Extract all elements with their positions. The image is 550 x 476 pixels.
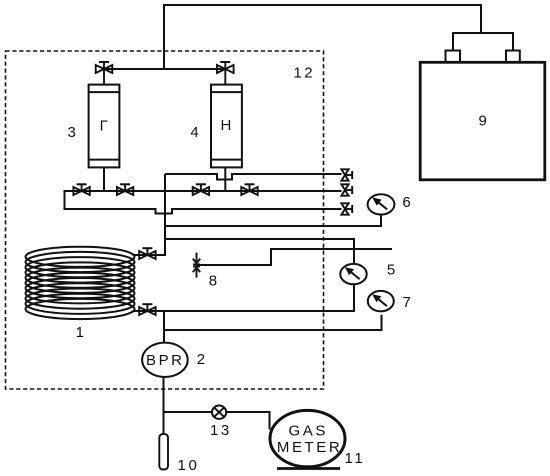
svg-text:6: 6: [402, 194, 410, 211]
wire stem cylinder 4: [224, 167, 226, 191]
svg-text:1: 1: [76, 324, 84, 341]
svg-text:13: 13: [210, 422, 232, 439]
wire to gauge 5 top: [165, 239, 354, 264]
wire battery bus: [453, 33, 513, 50]
dashed enclosure 12: [6, 51, 324, 389]
valve 13: [212, 406, 226, 419]
wire bypass top with jog: [165, 174, 342, 180]
needle valve 8: [193, 253, 200, 278]
wire BPR down: [163, 377, 165, 434]
valve stack B: [341, 184, 352, 195]
gauge 7: [368, 291, 394, 311]
wire from valve 8: [197, 249, 393, 265]
svg-text:4: 4: [190, 124, 198, 141]
valve V8 manifold: [241, 184, 257, 195]
wire manifold with left elbow and jog: [65, 191, 342, 214]
svg-text:8: 8: [209, 272, 217, 289]
terminal right: [506, 51, 520, 63]
wire gauge 5 bottom to coil line: [133, 285, 354, 312]
svg-text:H: H: [220, 117, 231, 134]
svg-text:5: 5: [387, 261, 395, 278]
wire valve header: [104, 68, 225, 70]
svg-text:2: 2: [197, 351, 205, 368]
svg-text:GAS: GAS: [288, 422, 327, 439]
svg-text:11: 11: [345, 450, 366, 467]
wire to gauge 7: [164, 315, 382, 330]
cylinder 4: [211, 85, 242, 168]
thermometer 10: [159, 434, 168, 470]
wire coil bottom line: [133, 310, 164, 312]
BPR regulator 2: [142, 343, 188, 377]
valve V7 manifold: [193, 184, 209, 195]
valve coil top: [139, 248, 155, 259]
svg-text:3: 3: [68, 124, 76, 141]
svg-text:METER: METER: [277, 439, 343, 456]
valve stack C: [341, 203, 352, 214]
svg-text:12: 12: [293, 64, 315, 81]
gas meter 11: [270, 410, 345, 466]
svg-text:BPR: BPR: [146, 352, 185, 369]
valve stack A: [341, 169, 352, 180]
wire stem cylinder 3: [103, 167, 105, 191]
wire top bus: [164, 5, 481, 69]
svg-text:Γ: Γ: [100, 117, 108, 134]
wire junction down to BPR: [163, 311, 165, 343]
gauge 6: [368, 194, 395, 214]
svg-text:10: 10: [178, 457, 200, 474]
valve V1 top of cylinder 3: [96, 62, 113, 85]
valve V5 manifold: [73, 184, 89, 195]
gauge 5: [340, 264, 366, 284]
cylinder 3: [89, 85, 120, 168]
gas meter base: [277, 467, 340, 470]
valve coil bottom: [139, 304, 155, 315]
wire to gas meter: [164, 412, 270, 430]
coil 1: [26, 247, 135, 319]
wire vertical header to coil valve: [133, 174, 165, 255]
svg-text:7: 7: [403, 294, 411, 311]
box 9: [420, 62, 545, 180]
wire to gauge 6: [165, 215, 381, 226]
valve V2 top of cylinder 4: [217, 62, 234, 85]
valve V6 manifold: [117, 184, 133, 195]
terminal left: [446, 51, 461, 63]
svg-text:9: 9: [479, 113, 487, 130]
